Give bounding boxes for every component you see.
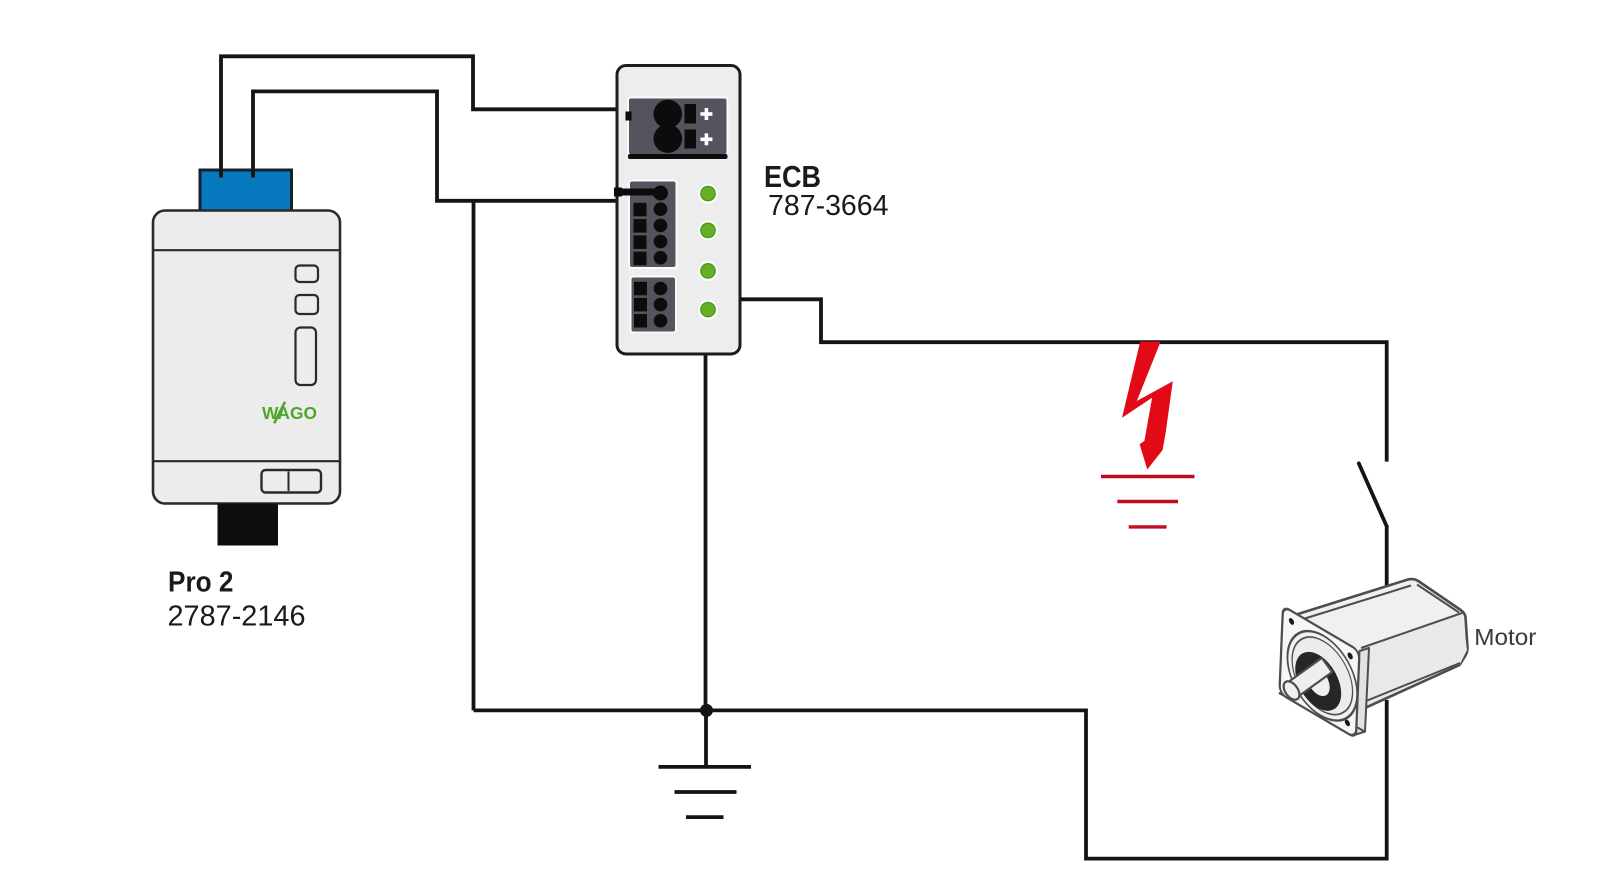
ECB module housing <box>617 66 740 355</box>
label Pro 2 <box>168 567 234 599</box>
PSU display window <box>296 328 317 386</box>
wire W1 PSU+ to ECB+ <box>221 56 618 174</box>
motor M1: front flange and rings <box>1279 606 1359 738</box>
wire W3 branch from W2 down to ground bus <box>472 201 476 711</box>
svg-text:787-3664: 787-3664 <box>768 190 889 222</box>
power supply Pro 2: top DC connector (blue) <box>200 170 292 213</box>
PSU button 2 <box>296 295 319 314</box>
wire W5 ground bus to motor return <box>474 700 1387 859</box>
ground symbol (earth) black <box>659 710 752 817</box>
fault earth symbol red <box>1101 477 1195 527</box>
ECB middle signal connector <box>614 181 677 269</box>
WAGO logo <box>262 402 317 424</box>
svg-text:WAGO: WAGO <box>262 403 317 423</box>
svg-text:Pro 2: Pro 2 <box>168 567 234 599</box>
junction node at ground bus <box>700 704 713 717</box>
label Motor <box>1474 624 1536 650</box>
ECB top power terminal block <box>626 98 728 160</box>
label ECB <box>764 159 821 194</box>
svg-text:ECB: ECB <box>764 159 821 194</box>
PSU button 1 <box>296 266 319 283</box>
power supply Pro 2: housing <box>153 211 340 504</box>
wire W2 PSU to ECB input <box>253 91 618 200</box>
PSU latch <box>262 470 322 493</box>
short-circuit fault: red lightning bolt arrow <box>1122 342 1173 470</box>
motor M1: flange side faces <box>1279 648 1369 735</box>
ECB bottom output connector <box>631 277 677 333</box>
switch S1 blade (open) <box>1359 463 1387 525</box>
label 2787-2146 <box>168 600 306 632</box>
ECB status LEDs (green) <box>698 184 718 320</box>
motor M1: shaft <box>1280 658 1332 703</box>
svg-text:Motor: Motor <box>1474 624 1536 650</box>
svg-text:2787-2146: 2787-2146 <box>168 600 306 632</box>
PSU bottom connector (black) <box>218 504 279 546</box>
wire W7 switch to motor <box>1385 525 1389 620</box>
wire W6 ECB output to switch <box>740 299 1387 461</box>
wire W4 ECB bottom to ground junction <box>704 352 708 710</box>
motor M1: body prism <box>1298 579 1468 712</box>
label 787-3664 <box>768 190 889 222</box>
